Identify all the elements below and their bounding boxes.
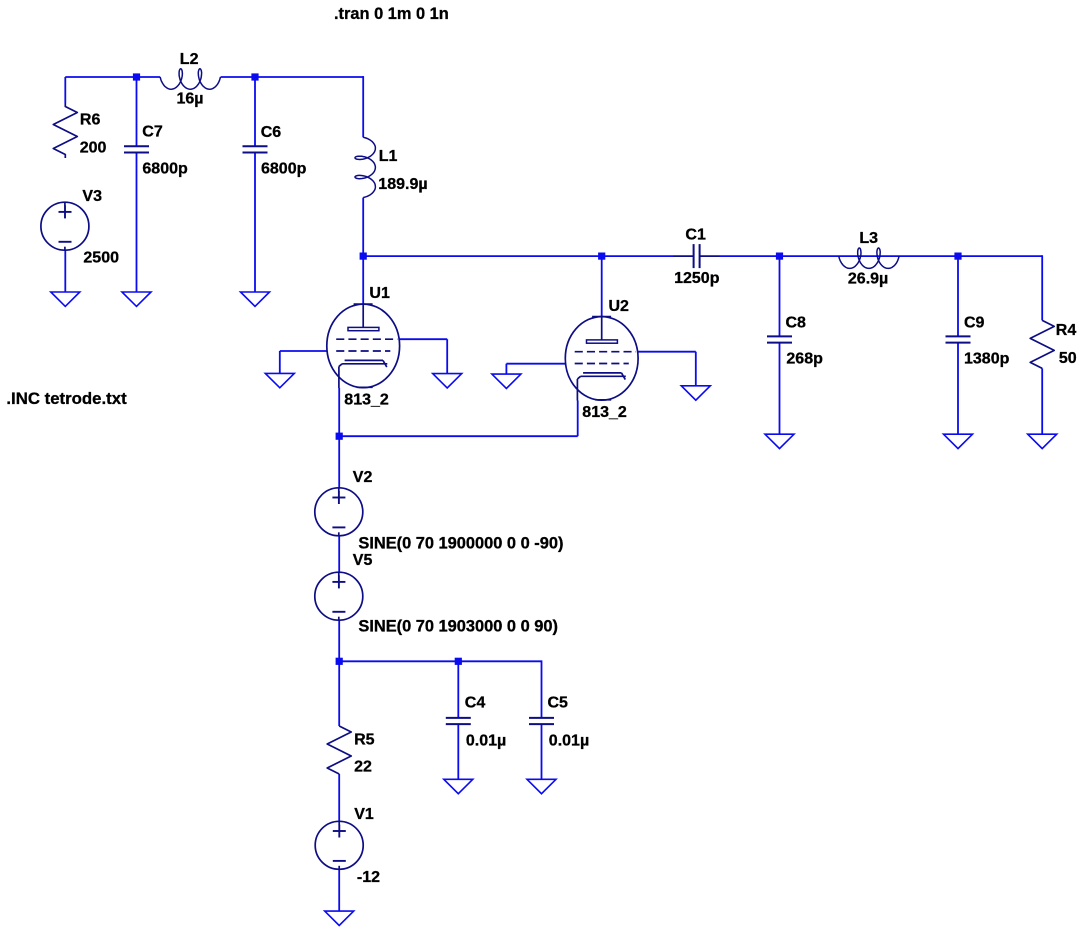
- capacitor C9: [946, 336, 971, 342]
- node junction: [776, 253, 783, 260]
- ground: [325, 911, 354, 925]
- svg-text:V2: V2: [353, 469, 373, 486]
- wire: [254, 77, 256, 146]
- svg-text:22: 22: [354, 758, 372, 775]
- wire: [399, 338, 447, 340]
- wire: [279, 351, 281, 373]
- svg-text:200: 200: [80, 140, 107, 157]
- svg-text:2500: 2500: [83, 250, 119, 267]
- tetrode U1: [327, 304, 400, 388]
- svg-text:813_2: 813_2: [344, 391, 389, 408]
- wire: [506, 363, 565, 365]
- wire: [541, 660, 543, 718]
- svg-text:C8: C8: [786, 314, 807, 331]
- resistor R4: [1030, 320, 1054, 368]
- wire: [338, 388, 340, 436]
- svg-text:.tran 0 1m 0 1n: .tran 0 1m 0 1n: [334, 5, 449, 23]
- tetrode U2: [565, 317, 638, 401]
- ground: [444, 779, 473, 793]
- wire: [338, 436, 340, 488]
- wire: [457, 724, 459, 779]
- svg-text:V5: V5: [353, 552, 373, 569]
- ground: [944, 434, 973, 448]
- svg-text:R6: R6: [80, 112, 101, 129]
- wire: [64, 77, 66, 103]
- ground: [492, 374, 521, 388]
- voltage source V2: [315, 488, 363, 536]
- wire: [338, 620, 340, 661]
- ground: [51, 292, 80, 306]
- svg-text:16µ: 16µ: [177, 91, 204, 108]
- wire: [541, 724, 543, 779]
- ground: [122, 292, 151, 306]
- svg-text:R4: R4: [1056, 322, 1077, 339]
- svg-text:U1: U1: [369, 285, 390, 302]
- node junction: [336, 658, 343, 665]
- svg-text:R5: R5: [354, 732, 375, 749]
- wire: [254, 153, 256, 293]
- svg-text:C7: C7: [142, 124, 163, 141]
- svg-text:1250p: 1250p: [674, 270, 720, 287]
- wire: [339, 660, 541, 662]
- svg-text:C1: C1: [685, 227, 706, 244]
- wire: [65, 76, 136, 78]
- wire: [1041, 368, 1043, 434]
- svg-text:C5: C5: [548, 695, 569, 712]
- svg-text:6800p: 6800p: [261, 160, 307, 177]
- resistor R6: [53, 103, 77, 158]
- resistor R5: [327, 726, 351, 774]
- wire: [362, 76, 364, 137]
- svg-text:0.01µ: 0.01µ: [549, 733, 589, 750]
- svg-text:L1: L1: [379, 148, 398, 165]
- wire: [638, 351, 696, 353]
- node junction: [133, 73, 140, 80]
- wire: [720, 255, 1043, 257]
- capacitor C8: [767, 336, 792, 342]
- svg-text:C9: C9: [964, 314, 985, 331]
- svg-text:L2: L2: [180, 51, 199, 68]
- svg-text:6800p: 6800p: [142, 160, 188, 177]
- wire: [136, 153, 138, 293]
- node junction: [455, 658, 462, 665]
- svg-text:268p: 268p: [786, 351, 823, 368]
- svg-text:C6: C6: [261, 124, 282, 141]
- svg-text:U2: U2: [609, 298, 630, 315]
- wire: [957, 343, 959, 435]
- wire: [280, 350, 327, 352]
- wire: [446, 339, 448, 373]
- wire: [137, 76, 161, 78]
- ground: [527, 779, 556, 793]
- svg-text:26.9µ: 26.9µ: [848, 271, 888, 288]
- voltage source V1: [315, 821, 363, 869]
- node junction: [598, 253, 605, 260]
- wire: [255, 76, 363, 78]
- voltage source V3: [41, 202, 89, 250]
- wire: [339, 435, 578, 437]
- capacitor C7: [124, 146, 149, 152]
- ground: [1028, 434, 1057, 448]
- ground: [265, 373, 294, 387]
- wire: [338, 774, 340, 821]
- svg-text:189.9µ: 189.9µ: [378, 176, 427, 193]
- wire: [363, 255, 673, 257]
- node junction: [336, 433, 343, 440]
- svg-text:0.01µ: 0.01µ: [466, 733, 506, 750]
- wire: [695, 352, 697, 386]
- wire: [338, 536, 340, 572]
- wire: [779, 343, 781, 435]
- ground: [433, 374, 462, 388]
- wire: [1041, 255, 1043, 320]
- wire: [362, 198, 364, 305]
- wire: [457, 661, 459, 718]
- svg-text:V3: V3: [82, 188, 102, 205]
- wire: [957, 256, 959, 336]
- svg-text:813_2: 813_2: [582, 404, 627, 421]
- node junction: [954, 253, 961, 260]
- wire: [64, 250, 66, 292]
- svg-text:1380p: 1380p: [964, 351, 1010, 368]
- ground: [241, 292, 270, 306]
- svg-text:.INC tetrode.txt: .INC tetrode.txt: [6, 389, 127, 408]
- svg-text:C4: C4: [465, 695, 486, 712]
- svg-text:50: 50: [1059, 350, 1077, 367]
- voltage source V5: [315, 572, 363, 620]
- capacitor C5: [529, 718, 554, 724]
- svg-text:V1: V1: [354, 806, 374, 823]
- svg-text:SINE(0 70 1903000 0 0 90): SINE(0 70 1903000 0 0 90): [358, 618, 558, 636]
- inductor L3: [839, 248, 899, 268]
- ground: [681, 386, 710, 400]
- wire: [338, 661, 340, 726]
- capacitor C4: [446, 718, 471, 724]
- capacitor C1: [673, 244, 720, 268]
- svg-text:SINE(0 70 1900000 0 0 -90): SINE(0 70 1900000 0 0 -90): [358, 534, 563, 552]
- node junction: [360, 253, 367, 260]
- wire: [779, 256, 781, 336]
- svg-text:-12: -12: [357, 869, 380, 886]
- svg-text:L3: L3: [859, 230, 878, 247]
- inductor L1: [355, 137, 375, 197]
- inductor L2: [160, 69, 220, 89]
- wire: [136, 77, 138, 146]
- wire: [505, 364, 507, 374]
- wire: [577, 401, 579, 437]
- node junction: [251, 73, 258, 80]
- capacitor C6: [243, 146, 268, 152]
- wire: [221, 76, 255, 78]
- wire: [601, 256, 603, 317]
- wire: [338, 870, 340, 911]
- ground: [765, 434, 794, 448]
